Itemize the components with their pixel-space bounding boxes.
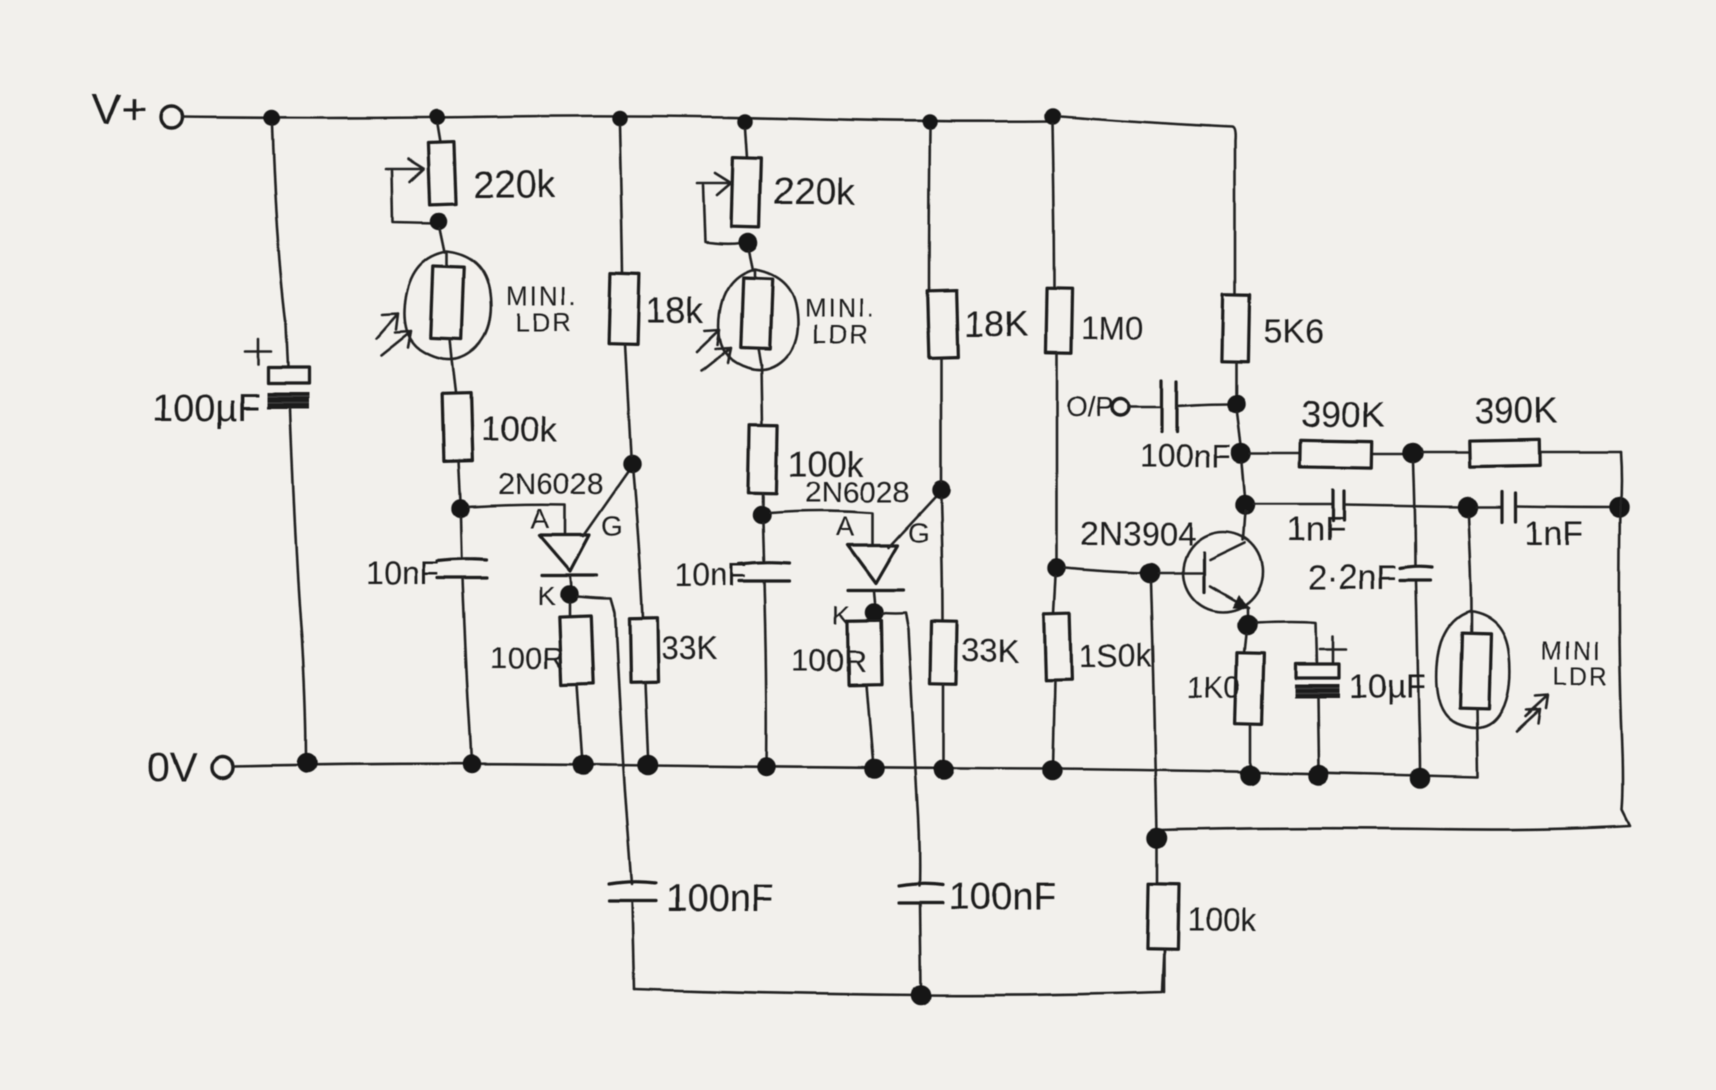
wire LDR right from 1nF node [1468,516,1471,611]
label 33K osc1 [661,630,718,666]
node 0V/100uF [298,754,316,772]
wire emitter to 1K0 [1244,634,1246,653]
svg-text:390K: 390K [1301,394,1385,435]
resistor 390K first [1301,440,1372,467]
trimmer 220K osc2 body [731,158,761,228]
label 10nF osc2 [674,557,747,593]
svg-text:220k: 220k [473,164,556,206]
capacitor C 100uF [267,368,309,409]
wire 33K to 0V osc1 [645,682,648,756]
wire LDR to 100k osc2 [761,365,762,425]
capacitor 10uF [1295,664,1339,698]
node 0V/2.2nF [1411,769,1429,787]
trimmer 220K osc1 body [428,142,456,205]
wire base from node to transistor [1065,568,1143,573]
node bottom wire/100nF osc2 [912,986,930,1004]
wire 390K node down to 1nF node [1242,462,1245,497]
trimmer 220K osc2 loop wire [703,185,741,244]
label 2N6028 osc1 [498,468,603,501]
label O/P [1066,391,1114,422]
node 0V/10nF osc2 [758,759,774,775]
svg-text:220k: 220k [773,172,856,214]
label 100nF output [1140,438,1231,474]
svg-text:V+: V+ [92,85,147,134]
wire 100k to anode node osc1 [459,462,461,502]
wire node to 390K node [1237,412,1241,445]
resistor 100k osc1 [442,394,473,463]
svg-text:G: G [601,510,623,541]
node gate osc2 [933,482,949,498]
capacitor 100nF osc1 [609,882,656,989]
node 0V/100R osc2 [865,760,883,778]
wire V+ rail to 5K6 [1060,116,1235,294]
wire V+ to trimmer osc2 [745,128,747,158]
label 150k [1079,638,1153,674]
svg-text:A: A [836,511,855,542]
wire 1M0 from V+ [1052,123,1054,289]
node anode osc2 [754,507,770,523]
node V+/220K osc1 [431,111,444,124]
resistor 33K osc1 [629,618,658,682]
svg-text:5K6: 5K6 [1264,313,1325,351]
svg-text:A: A [530,503,549,534]
wire 100k to anode node osc2 [762,493,765,507]
label G osc2 [908,517,930,548]
svg-text:100nF: 100nF [949,876,1057,918]
svg-text:K: K [537,581,555,611]
svg-text:10nF: 10nF [366,555,439,591]
wire right vertical rail [1160,452,1630,830]
svg-text:MINI: MINI [1541,638,1602,666]
wire emitter node to 10uF [1256,622,1317,664]
label 5K6 [1264,313,1325,351]
0V label [147,744,198,790]
O/P terminal [1113,399,1130,416]
trimmer 220K osc1 loop wire [392,171,435,223]
capacitor 2.2nF [1400,566,1431,580]
svg-text:1nF: 1nF [1287,511,1346,549]
label 100k osc1 [481,410,557,449]
wire 100nF to node [1177,404,1229,406]
capacitor 1nF second [1476,492,1516,522]
label MINI. LDR osc2 [804,293,876,349]
wire 18k osc2 from V+ [929,129,930,291]
wire 33K to 0V osc2 [943,684,946,762]
0V terminal [212,757,233,778]
svg-text:18K: 18K [964,303,1028,344]
node 390K left [1232,444,1250,462]
PUT 2N6028 osc2 [848,545,903,602]
svg-text:2N6028: 2N6028 [498,468,603,501]
node between 390Ks [1404,444,1422,462]
node emitter [1238,616,1256,634]
label MINI. LDR osc1 [506,281,578,337]
capacitor 10uF plus sign [1320,636,1346,662]
svg-text:100R: 100R [792,643,866,678]
wire gate osc1 [583,466,632,536]
wire anode node to PUT osc1 [469,505,565,533]
label A osc1 [530,503,549,534]
capacitor 100nF osc2 [899,884,943,988]
wire 18k to gate node osc2 [940,357,943,482]
node V+/18k osc1 [614,112,627,125]
wire 10uF to 0V [1318,698,1319,767]
node V+/220K osc2 [739,115,752,128]
label 2.2nF [1308,559,1397,597]
svg-text:LDR: LDR [515,307,573,337]
resistor 100k osc2 [748,425,777,493]
capacitor 100nF output [1162,380,1177,432]
label 2N3904 [1080,515,1196,552]
wire gate osc2 [889,492,940,547]
wire 18k osc1 from V+ [620,125,623,274]
wire 100uF to 0V [290,409,306,763]
label 1M0 [1081,310,1143,346]
node trimmer/LDR osc2 [740,235,757,252]
wire 1nF-1 to LDR node (crosses 2.2nF line) [1344,505,1459,507]
LDR osc2 light arrows [697,330,731,371]
wire LDR to 100k osc1 [452,359,456,393]
resistor 1M0 [1045,289,1072,353]
V+ label [92,85,147,134]
label 100R osc2 [792,643,866,678]
resistor 100R osc1 [559,615,593,684]
svg-text:1M0: 1M0 [1081,310,1143,346]
label 1nF first [1287,511,1346,549]
svg-text:100nF: 100nF [666,878,774,920]
LDR osc1 light arrows [376,313,411,355]
wire V+ rail [182,116,1052,121]
svg-text:10µF: 10µF [1348,668,1426,706]
wire 390K-2 leads [1422,451,1620,454]
PUT 2N6028 osc1 [539,535,597,588]
wire O/P to 100nF [1129,406,1160,409]
node 0V/10nF osc1 [464,756,480,772]
svg-text:33K: 33K [962,633,1019,669]
node gate osc1 [624,456,640,472]
node cathode osc2 [866,604,882,620]
trimmer 220K osc1 arrow [386,159,424,182]
label 100k bottom [1187,902,1257,938]
resistor 18k osc2 [927,291,958,358]
resistor 33K osc2 [930,622,957,684]
label 2N6028 osc2 [805,476,910,509]
wire 100k bottom lead [1163,949,1166,992]
svg-text:1K0: 1K0 [1187,671,1240,704]
label 1nF second [1525,515,1584,553]
svg-text:2·2nF: 2·2nF [1308,559,1397,597]
trimmer 220K osc2 arrow [697,173,731,195]
svg-text:LDR: LDR [812,319,870,349]
resistor 150k [1044,613,1072,681]
wire cathode to 100nF osc1 (crosses 0V) [577,596,632,884]
resistor 1K0 [1235,653,1264,725]
wire 1M0 to base node [1056,353,1059,560]
svg-text:2N3904: 2N3904 [1080,515,1196,552]
node O/P cap / 5K6 [1228,396,1244,412]
LDR right light arrows [1516,695,1548,731]
node LDR top [1458,498,1476,516]
svg-text:18k: 18k [646,290,705,331]
svg-text:100µF: 100µF [152,388,261,430]
label 390K first [1301,394,1385,435]
wire 100R to 0V osc1 [577,684,582,756]
wire 1nF-2 to right rail [1516,506,1619,507]
label 33K osc2 [962,633,1019,669]
label 100nF osc1 [666,878,774,920]
wire V+ to 100uF [272,125,288,367]
svg-text:390K: 390K [1474,390,1558,431]
svg-text:1nF: 1nF [1525,515,1584,553]
capacitor 10nF osc2 [739,523,789,767]
svg-text:O/P: O/P [1066,391,1114,422]
wire 1nF row left [1254,503,1333,506]
svg-text:100nF: 100nF [1140,438,1231,474]
wire base node to 150k [1054,576,1056,613]
node collector/1nF [1236,496,1254,514]
wire 2.2nF vertical [1413,462,1420,771]
wire collector to 1nF node [1245,511,1247,514]
label K osc2 [832,600,850,630]
wire emitter to emitter node [1246,607,1249,619]
resistor 100k bottom [1147,884,1178,950]
wire anode node to PUT osc2 [770,511,873,545]
label 100k osc2 [788,445,864,484]
label 1K0 [1187,671,1240,704]
wire cathode to 100nF osc2 (crosses 0V) [882,613,919,886]
svg-text:0V: 0V [147,744,198,790]
node 0V/33K osc1 [639,756,657,774]
node 0V/150k [1043,762,1061,780]
label 390K second [1474,390,1558,431]
wire cathode to 100R osc1 [568,602,571,616]
wire 5K6 to collector column [1235,362,1238,396]
svg-text:100R: 100R [490,640,564,675]
resistor 5K6 [1221,294,1249,362]
node V+/18k osc2 [924,116,937,129]
node cathode osc1 [561,586,577,602]
label G osc1 [601,510,623,541]
bottom wire joining 100nF caps and 100k [634,949,1164,995]
node loop/100k [1148,829,1166,847]
LDR osc1 [404,251,491,360]
capacitor 10nF osc1 [437,517,487,764]
wire 18k to gate node osc1 [625,344,631,456]
wire V+ to trimmer osc1 [437,124,440,142]
label 220k osc2 [773,172,856,214]
label MINI LDR right [1541,638,1609,691]
node 0V/1K0 [1241,766,1259,784]
svg-text:33K: 33K [661,630,718,666]
node trimmer/LDR osc1 [432,214,447,229]
wire 1K0 to 0V [1249,724,1252,768]
wire 100R to 0V osc2 [866,684,873,767]
capacitor C 100uF plus sign [245,339,271,365]
svg-text:100k: 100k [481,410,557,449]
label 18K osc2 [964,303,1028,344]
wire 0V rail [233,764,1478,777]
node base/1M0 [1049,560,1065,576]
wire trimmer to LDR osc2 [749,251,753,270]
wire 390K-1 leads [1250,453,1405,454]
label K osc1 [537,581,555,611]
node V+/100uF [265,111,279,125]
node anode osc1 [453,501,469,517]
svg-text:LDR: LDR [1553,663,1609,691]
label 10nF osc1 [366,555,439,591]
LDR right [1437,611,1510,776]
node 0V/10uF [1310,766,1328,784]
node base tap [1141,564,1159,582]
label 100nF osc2 [949,876,1057,918]
wire 150k to 0V [1053,680,1055,768]
label 18k osc1 [646,290,705,331]
label 100uF [152,388,261,430]
capacitor 1nF first [1333,490,1344,521]
resistor 390K second [1469,439,1540,466]
V+ terminal [160,106,182,128]
wire base column down through 0V to 100k [1151,582,1157,882]
label 10uF [1348,668,1426,706]
node V+/1M0 [1045,109,1059,123]
wire gate node to 33K osc1 [633,472,643,618]
svg-text:1S0k: 1S0k [1079,638,1153,674]
label A osc2 [836,511,855,542]
wire gate node to 33K osc2 [941,498,943,622]
node 0V/100R osc1 [574,756,592,774]
transistor 2N3904 [1159,511,1263,612]
wire trimmer to LDR osc1 [440,228,445,252]
resistor 18k osc1 [609,274,640,345]
label 100R osc1 [490,640,564,675]
node right rail / 1nF [1610,498,1628,516]
svg-text:10nF: 10nF [674,557,747,593]
node 0V/33K osc2 [935,761,953,779]
label 220k osc1 [473,164,556,206]
wire cathode to 100R osc2 [873,619,876,622]
resistor 100R osc2 [847,620,881,685]
svg-text:100k: 100k [1187,902,1257,938]
LDR osc2 [719,269,797,370]
svg-text:2N6028: 2N6028 [805,476,910,509]
